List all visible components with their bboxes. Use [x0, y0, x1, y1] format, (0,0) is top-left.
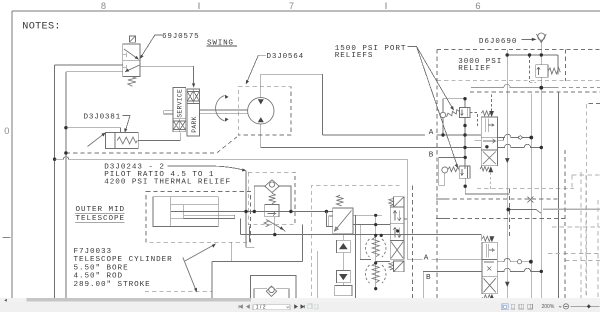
- upper spool body: [481, 117, 497, 166]
- relief 3000psi body: [536, 65, 548, 78]
- view mode single page active: [502, 304, 508, 310]
- counterbalance valve body: [333, 208, 353, 234]
- motor enclosure dashed box: [238, 87, 291, 135]
- D6J0690 label arrow: [522, 38, 533, 40]
- svg-text:NOTES:: NOTES:: [22, 21, 60, 32]
- solenoid stack bottom spring: [389, 263, 394, 270]
- pager next icon: [295, 305, 298, 308]
- wire left port A: [55, 64, 123, 66]
- relief valve adjust arrow: [88, 134, 105, 147]
- pager page field: [253, 305, 290, 310]
- upper spool mid cell detail: [483, 139, 496, 143]
- cylinder cap divider: [170, 197, 172, 227]
- junction dot: [529, 260, 533, 264]
- port relief B loop left: [439, 157, 445, 185]
- wire cylinder line to valve: [241, 235, 482, 241]
- junction dot: [374, 287, 377, 290]
- pilot check lower symbol: [372, 263, 379, 283]
- cylinder piston: [183, 205, 185, 219]
- label D3J0243 leader: [168, 166, 245, 170]
- wire A line to valve bank: [322, 134, 481, 136]
- thermal relief check diamond: [265, 180, 279, 193]
- dashed vline 565 upper: [565, 49, 567, 80]
- gray dashed continuation: [562, 87, 600, 89]
- svg-text:B: B: [426, 274, 431, 282]
- leader to lower cylinder: [183, 257, 196, 290]
- thermal relief adjust arrow: [264, 220, 269, 227]
- junction dot: [540, 53, 543, 56]
- svg-text:SERVICE: SERVICE: [177, 89, 184, 118]
- svg-text:289.00″ STROKE: 289.00″ STROKE: [74, 281, 151, 289]
- status bar: [0, 302, 600, 312]
- junction dot: [529, 136, 533, 140]
- junction dot: [374, 261, 377, 264]
- scrollbar left arrow: [4, 299, 7, 302]
- svg-text:RELIEF: RELIEF: [458, 65, 491, 73]
- first box port down: [230, 242, 232, 261]
- valve top cell flow arrow: [124, 49, 139, 59]
- lower spool top triangle: [490, 236, 495, 242]
- svg-text:4.50″ ROD: 4.50″ ROD: [74, 273, 124, 281]
- thermal relief drain: [274, 217, 276, 235]
- check valve down assembly: [337, 270, 351, 282]
- arrow into brake valve: [192, 83, 195, 87]
- vline x=541.3 continue: [540, 88, 542, 298]
- upper spool bottom triangle: [488, 166, 493, 172]
- cylinder rod: [184, 215, 235, 218]
- junction dot: [380, 234, 383, 237]
- wire bottom rail y=159.2 with hop: [55, 157, 408, 160]
- svg-text:RELIEFS: RELIEFS: [335, 52, 374, 60]
- solenoid valve 69J0575 coil: [129, 36, 135, 42]
- lower spool bottom triangle: [490, 294, 495, 300]
- port relief A dashed pilot: [470, 113, 478, 128]
- junction dot: [506, 53, 509, 56]
- junction dot: [540, 270, 543, 273]
- port relief B body: [459, 166, 470, 178]
- zoom slider track: [571, 305, 600, 307]
- cylinder stage walls: [171, 205, 218, 219]
- port relief A spring: [447, 110, 460, 117]
- flow arrow down on main line: [505, 158, 510, 163]
- manifold dashed boundary left: [436, 49, 438, 297]
- pilot check lower dashed bracket: [365, 265, 386, 283]
- cb outlet stub right: [353, 215, 382, 297]
- cb valve connect wires: [342, 234, 344, 286]
- view mode facing continuous: [528, 304, 533, 309]
- junction dot: [463, 146, 466, 149]
- second cylinder dashed box top: [145, 291, 212, 293]
- gray interconnect line: [471, 84, 559, 87]
- port relief A feed top: [443, 98, 465, 100]
- svg-text:F7J0033: F7J0033: [74, 248, 113, 256]
- plugged cross: [527, 197, 533, 203]
- wire left rail x=65.9: [65, 72, 67, 298]
- lower work port B: [497, 268, 541, 271]
- gray dashed corner vline 572: [571, 175, 573, 190]
- brake pilot stub: [164, 111, 173, 114]
- upper spool pilot dashed: [491, 93, 493, 111]
- junction dot: [396, 229, 399, 232]
- shaft rotation arc: [216, 96, 225, 121]
- second thermal relief inner box: [254, 289, 289, 298]
- solenoid stack X cell: [390, 241, 404, 260]
- svg-text:6: 6: [475, 1, 480, 11]
- wire valve out to brake: [140, 66, 194, 86]
- solenoid stack arrows bottom cell: [393, 227, 401, 237]
- upper spool bottom spring: [480, 166, 489, 171]
- gray dashed vline 581.1: [580, 172, 582, 298]
- junction dot: [464, 185, 467, 188]
- brake PARK X-box: [187, 89, 200, 103]
- svg-text:200%: 200%: [542, 304, 555, 310]
- pilot check upper dashed bracket: [365, 239, 386, 257]
- relief valve D3J0381 body: [105, 132, 138, 148]
- lower spool bottom spring: [482, 295, 492, 300]
- pager first page icon: [239, 305, 242, 308]
- solenoid stack body: [390, 207, 404, 241]
- dashed hline at 188.8: [477, 188, 574, 190]
- wire relief out to brake: [138, 132, 180, 140]
- D6J0690 check valve: [538, 33, 545, 40]
- upper spool spring: [481, 111, 491, 116]
- label D3J0564 leader: [247, 55, 266, 83]
- junction dot: [463, 97, 466, 100]
- lower B feed box: [423, 272, 482, 298]
- manifold dashed line y=92: [470, 91, 600, 93]
- scrollbar track: [0, 298, 600, 302]
- junction dot: [374, 234, 377, 237]
- junction dot: [244, 210, 247, 213]
- lower spool top cell detail: [486, 244, 494, 257]
- motor circle D3J0564: [248, 98, 274, 124]
- pilot branch vline: [246, 171, 254, 248]
- junction dot: [539, 86, 543, 90]
- next view icon grayed: [314, 304, 318, 309]
- lower gallery line: [436, 198, 445, 200]
- wire left rail x=54.6: [54, 65, 56, 298]
- thermal relief valve body: [265, 205, 279, 217]
- pilot dashed enclosure: [311, 186, 412, 298]
- upper spool bottom cell X: [483, 152, 496, 165]
- dashed drain line: [66, 135, 239, 153]
- bypass wire left of shuttle: [360, 225, 371, 260]
- svg-text:0: 0: [4, 126, 9, 136]
- sheet border left: [11, 11, 13, 298]
- vline x=531.3: [530, 93, 532, 297]
- lower spool top spring: [482, 236, 492, 241]
- stack outlet right: [404, 218, 407, 220]
- junction dot: [507, 208, 511, 212]
- junction dot: [64, 126, 67, 129]
- gray dashed vline 597.8: [597, 200, 599, 298]
- junction dot: [253, 210, 256, 213]
- second box right edge: [317, 251, 319, 298]
- svg-text:D3J0564: D3J0564: [267, 53, 305, 61]
- lower spool body: [482, 242, 497, 294]
- junction dot: [441, 133, 444, 136]
- junction dot: [464, 156, 467, 159]
- shuttle outlet right: [376, 261, 390, 263]
- branch at 209.5: [508, 210, 541, 214]
- pilot check upper symbol: [372, 237, 379, 257]
- ruler row tick: [3, 237, 11, 239]
- counterbalance pilot stub: [329, 216, 333, 227]
- gray dashed hline 260.3: [565, 259, 600, 261]
- wire left port B: [66, 71, 123, 73]
- brake SERVICE column box: [173, 88, 186, 119]
- svg-text:D3J0381: D3J0381: [84, 114, 122, 122]
- valve bottom cell flow path: [125, 65, 140, 72]
- svg-text:A: A: [424, 254, 429, 262]
- relief 3000psi spring: [548, 68, 560, 74]
- wire motor top to valve A: [261, 74, 323, 135]
- second box right corner up: [302, 225, 304, 262]
- junction dot: [289, 210, 292, 213]
- svg-text:A: A: [429, 129, 434, 137]
- cylinder barrel: [153, 197, 218, 227]
- work port B line: [498, 144, 541, 147]
- manifold dashed boundary top: [437, 48, 600, 50]
- label 69J0575 leader: [141, 35, 162, 58]
- check valve up assembly: [337, 240, 351, 252]
- port relief A body: [460, 108, 471, 118]
- ruler tick: [385, 3, 387, 10]
- port relief A ball check: [440, 112, 445, 117]
- solenoid stack top coil: [394, 197, 404, 207]
- wire relief feed from junction: [66, 128, 121, 133]
- work port A hop and diamond: [498, 134, 532, 139]
- valve top cell blocked port T: [123, 52, 127, 57]
- leader to cylinder: [185, 245, 215, 262]
- prev view icon grayed: [308, 304, 312, 309]
- counterbalance valve spring: [337, 195, 344, 206]
- junction dot inside spool: [485, 145, 488, 148]
- wire right edge down: [406, 159, 408, 259]
- pager last icon: [301, 305, 304, 308]
- junction dot: [374, 223, 377, 226]
- 1500 psi leader: [408, 47, 458, 167]
- solenoid stack top spring: [389, 199, 394, 206]
- cylinder centerline: [171, 211, 255, 213]
- relief 3000psi outlet: [540, 77, 542, 88]
- thermal relief spring: [269, 193, 276, 203]
- main pressure vline: [506, 49, 508, 297]
- valve return spring: [128, 76, 136, 86]
- zoom out button: [563, 304, 568, 309]
- shuttle center vline: [375, 215, 377, 290]
- motor shaft double line: [200, 110, 248, 113]
- pilot wire to solenoid stack: [353, 224, 390, 226]
- svg-text:69J0575: 69J0575: [162, 33, 200, 41]
- junction dot: [374, 214, 377, 217]
- lower A feed left: [407, 258, 482, 260]
- junction dot: [53, 158, 56, 161]
- counterbalance flow path: [335, 211, 352, 232]
- pilot branch to stub: [326, 212, 328, 227]
- thermal relief dashed enclosure: [248, 172, 295, 225]
- gray dashed vline 585.9: [585, 175, 587, 298]
- second gallery line: [436, 218, 446, 220]
- solenoid valve 69J0575 body: [123, 44, 140, 76]
- upper spool solenoid triangle: [489, 111, 494, 117]
- flow arrow down lower: [505, 282, 510, 287]
- svg-text:TELESCOPE CYLINDER: TELESCOPE CYLINDER: [74, 256, 173, 264]
- upper spool bottom pilot dashed: [490, 172, 492, 188]
- gray gallery line 209.4: [543, 208, 600, 210]
- junction dot below relief A: [463, 124, 466, 127]
- gray dashed hline 227.1: [552, 226, 600, 228]
- wire motor bottom to B line: [261, 124, 482, 148]
- junction dot: [273, 233, 276, 236]
- solenoid stack bottom coil: [394, 261, 404, 272]
- lower spool bottom cell X: [484, 278, 496, 292]
- port relief B ball check: [442, 167, 448, 173]
- view mode continuous: [511, 304, 514, 309]
- wire rod end port: [241, 219, 250, 242]
- valve bottom cell blocked port T: [123, 65, 127, 70]
- port relief B outlet: [465, 178, 509, 194]
- dashed vline 565 lower: [564, 150, 566, 298]
- junction dot: [463, 133, 466, 136]
- work port A stub lines: [475, 138, 504, 141]
- brake PARK column box: [187, 103, 200, 135]
- solenoid stack arrows top cell: [393, 211, 401, 221]
- relief valve D3J0381 spring: [117, 137, 137, 144]
- upper spool top cell detail: [486, 119, 494, 133]
- relief 3000psi dashed pilot: [530, 55, 536, 82]
- svg-text:8: 8: [101, 1, 106, 11]
- svg-text:7: 7: [289, 1, 294, 11]
- port relief B loop top: [439, 157, 466, 166]
- view mode facing: [519, 304, 524, 309]
- zoom dropdown caret: [559, 306, 562, 308]
- thermal relief loop: [254, 186, 291, 212]
- svg-text:B: B: [429, 151, 434, 159]
- junction dot: [528, 53, 531, 56]
- label D3J0381 leader: [123, 116, 131, 132]
- junction dot: [325, 210, 328, 213]
- ruler tick: [198, 3, 200, 10]
- dashed corner top right: [586, 104, 600, 298]
- motor flow arrow top: [258, 99, 264, 104]
- port relief B spring: [448, 167, 459, 172]
- gray dashed hline 175.2: [572, 174, 600, 176]
- second telescope feed line: [212, 262, 303, 298]
- manifold dashed line y=80.8: [437, 80, 600, 82]
- vline x=558.4: [557, 92, 559, 298]
- zoom slider thumb: [587, 304, 591, 308]
- second thermal relief diamond: [266, 286, 276, 296]
- lower box: [335, 286, 352, 296]
- second telescope box: [251, 276, 297, 298]
- svg-text:4200 PSI THERMAL RELIEF: 4200 PSI THERMAL RELIEF: [104, 179, 231, 187]
- lower work port A: [497, 259, 517, 262]
- gray dashed hline 253.3: [548, 252, 600, 254]
- junction dot: [64, 151, 67, 154]
- junction dot: [540, 146, 543, 149]
- supply rail top: [507, 41, 558, 75]
- svg-text:D6J0690: D6J0690: [479, 38, 518, 46]
- scrollbar thumb: [27, 298, 252, 302]
- brake SERVICE X-box: [173, 119, 186, 132]
- sheet border top: [12, 10, 600, 12]
- svg-text:PARK: PARK: [191, 116, 198, 133]
- svg-text:5.50″ BORE: 5.50″ BORE: [74, 264, 129, 272]
- port relief A vline: [464, 99, 466, 169]
- telescope cylinder dashed box: [146, 192, 250, 243]
- centerline to counterbalance: [254, 211, 332, 213]
- svg-text:1 / 2: 1 / 2: [256, 305, 266, 311]
- lower spool mid cell detail: [484, 262, 494, 271]
- pager prev icon: [247, 305, 250, 308]
- motor flow arrow bottom: [258, 117, 264, 122]
- dashed vline 509.6 lower: [509, 189, 511, 238]
